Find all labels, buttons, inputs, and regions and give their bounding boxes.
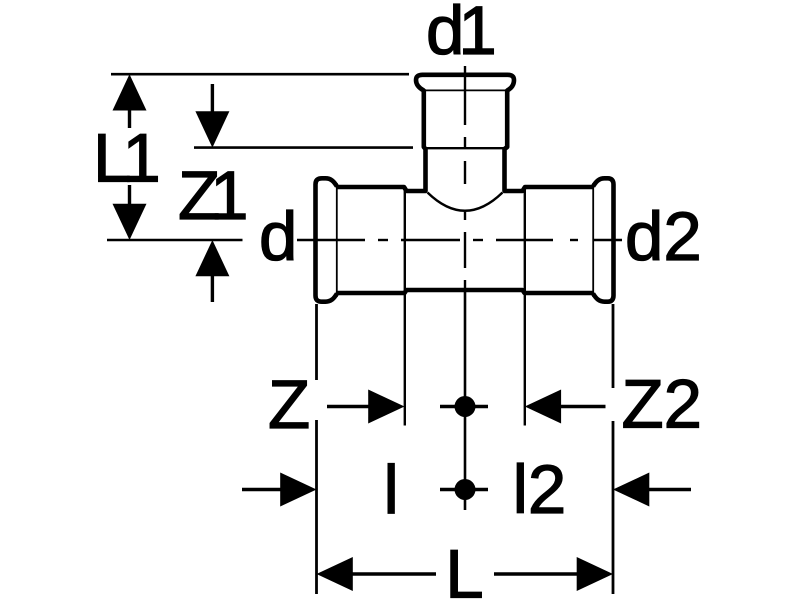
svg-text:l: l (384, 452, 399, 529)
svg-text:Z1: Z1 (178, 157, 245, 234)
svg-text:L: L (445, 536, 483, 600)
svg-text:Z: Z (268, 366, 310, 443)
svg-text:L1: L1 (93, 120, 157, 197)
svg-text:d: d (259, 198, 297, 275)
svg-text:d2: d2 (625, 198, 702, 275)
svg-text:Z2: Z2 (622, 366, 703, 443)
svg-text:l2: l2 (513, 451, 567, 528)
svg-text:d1: d1 (426, 0, 493, 69)
